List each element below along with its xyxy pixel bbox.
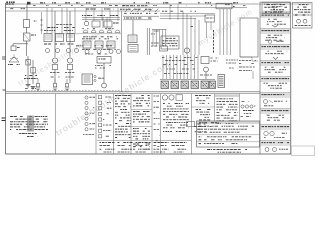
label row above bus C (86, 8, 96, 10)
panel7 footer (163, 131, 187, 133)
numbered wiring code table (197, 121, 260, 147)
sheet title text top-left (6, 1, 15, 3)
left border tick 2 (3, 89, 6, 91)
panel2 footer text (83, 134, 94, 136)
bulkhead connector row (83, 30, 88, 33)
label row under bus B (115, 5, 118, 7)
panel2 symbol column (85, 96, 88, 99)
comb bundle header line (152, 29, 167, 31)
center labels right (154, 30, 159, 32)
panel9 header (215, 94, 239, 97)
wire to right column (252, 71, 254, 79)
panel9 text list (217, 98, 234, 100)
connector labels (83, 36, 117, 38)
dash panel label row (82, 15, 118, 17)
legend divider x191 (191, 94, 193, 154)
wire headlamp feed vertical x27 (26, 4, 28, 20)
panel6 narrow symbols (154, 95, 160, 97)
sheet left border (5, 3, 7, 154)
turn signal unit B (56, 34, 64, 42)
legend divider x160.5 (160, 94, 162, 154)
junction box top (205, 15, 215, 22)
bulkhead connector bar (160, 79, 215, 81)
connector block row C5 (201, 81, 209, 89)
instrument cluster gauges row (83, 41, 91, 48)
connector block row C6 (210, 81, 216, 89)
right column header 1 (260, 14, 290, 17)
panel8 lower part (197, 123, 205, 125)
connector block row C4 (191, 81, 199, 89)
tick labels along top bus (29, 2, 31, 4)
panel1 connector pinout chart (10, 116, 47, 118)
wire switch to dimmer (26, 28, 28, 34)
engine block tall rectangle (240, 18, 258, 57)
right column header 6 (260, 93, 290, 96)
legend divider x55 (55, 94, 57, 154)
ignition switch box (97, 57, 111, 64)
ground symbol left A (26, 85, 31, 87)
lamp socket A (26, 60, 31, 66)
legend divider x214.5 (214, 94, 216, 121)
instrument feed circle (84, 21, 88, 25)
harness top labels (162, 10, 196, 12)
upper cluster label row (47, 27, 58, 29)
right column cell 3 text (268, 34, 283, 36)
right column top edge (260, 1, 291, 3)
ground symbol left B (31, 87, 36, 89)
label block engine compartment (161, 36, 179, 49)
top bus line C (6, 10, 161, 12)
fuse panel side label (98, 77, 103, 79)
wire drop x211 (210, 22, 212, 30)
legend divider x131 (130, 94, 132, 154)
battery label texts (226, 59, 238, 61)
sheet caption under table (207, 149, 247, 151)
bus tick blob (27, 2, 30, 5)
harness labels (162, 57, 198, 59)
legend divider x239.5 (239, 94, 241, 121)
cluster mid text (56, 24, 72, 26)
wire regulator down (205, 72, 207, 79)
marker lamp text (24, 78, 38, 80)
wiper switch box (128, 35, 137, 43)
right column cell 8 text (267, 114, 284, 116)
right column header 4 (260, 61, 290, 64)
extra top band specks (33, 4, 36, 6)
right column cell 5 text (265, 66, 286, 68)
park lamp wire x55 (54, 11, 56, 57)
socket labels row 2 (82, 48, 116, 50)
center top label rows (124, 12, 157, 14)
title block B header strip (293, 14, 312, 16)
panel7 text list (163, 103, 189, 105)
right column cell 2 text (268, 18, 277, 20)
fuse panel block (82, 74, 93, 85)
wire verticals upper cluster (46, 8, 48, 33)
dimmer switch icon (9, 57, 19, 62)
wire pair left lamps (27, 56, 29, 84)
right column cell 6 text (264, 82, 288, 84)
bundle hatch marks on bus (125, 9, 129, 13)
left under-bus text row (10, 8, 26, 10)
vertical text column (213, 30, 215, 53)
title block B connector circles (297, 19, 301, 23)
title block A header (262, 11, 289, 14)
sheet bottom border (6, 153, 292, 155)
gauge cluster label row (82, 38, 118, 40)
connector block row C3 (181, 81, 189, 89)
bottom strip fuse table row1 (97, 140, 192, 142)
right column header 3 (260, 45, 290, 48)
side marker wire x41.5 (41, 12, 43, 34)
right column cell 10 symbols (265, 148, 269, 152)
gauge box B (104, 21, 112, 27)
lamp ground labels (51, 76, 60, 78)
right column right edge x290.5 (290, 2, 292, 154)
turn signal unit C (67, 34, 75, 42)
wire drop x133 (132, 20, 134, 35)
dense harness verticals (162, 55, 164, 79)
wire drops x103 x107 (102, 18, 104, 29)
turn signal unit A (44, 34, 52, 42)
lamp socket B (31, 68, 36, 74)
alternator circle (184, 48, 189, 53)
regulator connector circle (204, 67, 209, 72)
panel divider line x121.5 (121, 11, 123, 92)
lamp body right (67, 65, 72, 70)
socket circles row 2 (85, 50, 89, 54)
left border tick 3 (2, 118, 6, 121)
feed wires from top band (85, 8, 87, 21)
gauge box A (92, 21, 100, 27)
starter motor tall box (218, 75, 225, 88)
top bus line B (6, 7, 248, 9)
panel8 relay icon (187, 122, 195, 127)
cluster label row 2 (44, 43, 57, 45)
legend divider x152 (151, 94, 153, 154)
panel10 component icons (242, 101, 249, 103)
bottom strip fuse table row2 (100, 148, 115, 150)
battery wires vertical (219, 9, 221, 55)
wire pair x147 (146, 28, 148, 55)
wires to alternator (182, 12, 184, 55)
panel8 centered notes (195, 95, 211, 97)
wire ignition down (103, 63, 105, 83)
page right edge line (290, 28, 292, 146)
title block A frame (262, 3, 290, 14)
bottom hanging resistor symbols (37, 79, 39, 84)
wire drop x206 (206, 22, 208, 38)
right column header 5 (260, 77, 290, 80)
flasher unit (11, 46, 16, 51)
dashed splice line (25, 89, 120, 91)
lamp body left (52, 65, 57, 70)
right column cell dividers (260, 12, 291, 14)
wire to junction (26, 41, 28, 44)
voltage regulator box (201, 57, 209, 64)
right column cell 9 symbols (264, 131, 268, 135)
title block B text upper (299, 4, 309, 6)
top bus line A (6, 3, 259, 5)
park lamp wire x70 (69, 11, 71, 57)
wire drop x13 (12, 44, 14, 46)
connector block row C2 (171, 81, 179, 89)
panel7 lamp circles (162, 95, 167, 100)
panel3 component column (99, 96, 102, 99)
panel4 wire color list (115, 95, 131, 97)
dash bus line (82, 17, 120, 19)
text rows under engine block (239, 60, 256, 62)
harness corner wires (160, 14, 215, 19)
comb terminal box (160, 46, 168, 51)
connector circles row (46, 49, 50, 53)
wire lamp left down (54, 70, 56, 84)
wire lamp right down (69, 70, 71, 84)
dimmer relay box (24, 33, 31, 41)
fuse box top band (216, 3, 232, 9)
comb bundle wires (152, 30, 154, 47)
headlamp bulb right (67, 58, 72, 63)
right column cell 1 text (264, 3, 281, 5)
starter relay circle (102, 83, 107, 88)
wire x26 lower (26, 44, 28, 56)
legend divider x96 (95, 94, 97, 154)
title block A text (267, 4, 285, 6)
washer pump box (128, 45, 138, 53)
panel5 notes blocks (141, 95, 149, 97)
right column header 7 (260, 109, 290, 112)
right column left edge x260 (259, 2, 261, 154)
cluster connect line (55, 33, 121, 35)
title block B frame (293, 3, 313, 29)
bottom-right overlay box (292, 146, 315, 156)
legend divider x113.5 (113, 94, 115, 154)
headlamp switch body (24, 20, 30, 28)
junction horizontal wire (13, 43, 28, 45)
branch drops from bus (169, 5, 171, 21)
fuse panel pins (94, 75, 96, 77)
headlamp bulb left (52, 58, 57, 63)
engine block step (240, 57, 258, 61)
wire id labels mid harness (163, 64, 177, 66)
schematic bottom rule lower (6, 93, 261, 95)
connector block row C1 (161, 81, 169, 89)
right column cell 7 symbols (264, 100, 268, 104)
ignition label (95, 65, 111, 67)
right column header 2 (260, 29, 290, 32)
right column header 9 (260, 141, 290, 144)
right column cell 4 text (268, 50, 288, 52)
left border tick 1 (2, 57, 6, 59)
schematic bottom rule upper (6, 91, 261, 93)
right column header 8 (260, 125, 290, 128)
